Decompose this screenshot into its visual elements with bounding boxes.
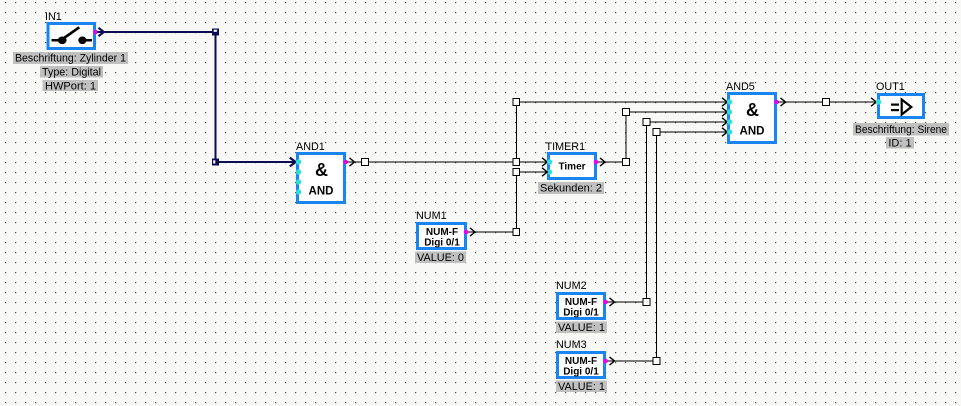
node corner at (646,122) [643,119,650,126]
svg-text:NUM3: NUM3 [556,339,587,351]
wire arrow into AND5 input 4 [722,128,727,136]
wire corner to AND1, horizontal [219,161,296,163]
svg-text:IN1: IN1 [45,11,62,23]
wire arrow into TIMER1 input 1 [542,158,547,166]
node waypoint at (826,102) [823,99,830,106]
IN1 output pin [93,30,98,35]
number block NUM1 [416,210,466,249]
node corner at (516,232) [513,229,520,236]
wire TIMER1 out arrow [600,158,605,166]
AND1 output pin [343,160,348,165]
node corner junction bottom [212,159,219,166]
NUM1 output pin [464,230,469,235]
node corner at (646,302) [643,299,650,306]
svg-text:&: & [315,160,328,180]
node corner at (656,361) [653,358,660,365]
svg-text:Digi 0/1: Digi 0/1 [563,367,599,378]
TIMER1 output pin [594,160,599,165]
AND1 input pins [296,159,301,194]
node corner at (516,172) [513,169,520,176]
label Beschriftung: Sirene [853,123,949,136]
wire arrow into AND5 input 1 [722,98,727,106]
wire AND5 to OUT1, horizontal [778,101,877,103]
wire NUM1 out arrow [470,228,475,236]
svg-text:HWPort: 1: HWPort: 1 [45,80,96,92]
svg-text:AND: AND [309,186,334,198]
wire riser x646 up to AND5 row [646,122,648,299]
wire NUM3 to riser, horizontal [608,360,657,362]
OUT1 input pin [876,99,881,104]
wire arrow into OUT1 input [871,98,876,106]
wire AND5 out arrow [781,98,786,106]
svg-text:ID: 1: ID: 1 [888,137,911,149]
timer block TIMER1 [546,141,596,179]
wire arrow into AND1 input 1 [290,158,296,167]
svg-text:Beschriftung: Sirene: Beschriftung: Sirene [855,124,947,136]
label HWPort: 1 [43,80,99,92]
svg-text:Digi 0/1: Digi 0/1 [563,308,599,319]
wire riser x516 up to AND5 row [515,102,517,159]
wire arrow into AND5 input 3 [722,118,727,126]
node corner junction top [212,29,219,36]
AND gate AND5 [726,81,776,143]
AND5 input pins [727,99,732,134]
node corner at (656,132) [653,129,660,136]
svg-text:AND: AND [740,126,765,138]
AND gate AND1 [296,141,345,203]
svg-text:TIMER1: TIMER1 [546,141,586,153]
wire to AND5 input 1, horizontal [520,101,728,103]
svg-text:Digi 0/1: Digi 0/1 [424,238,460,249]
svg-text:VALUE: 1: VALUE: 1 [558,381,605,393]
wire arrow into TIMER1 input 2 [542,168,547,176]
label ID: 1 [886,137,914,149]
svg-text:NUM1: NUM1 [416,210,447,222]
wire AND1 to TIMER1 in1, horizontal [347,161,548,163]
wire IN1 to corner, horizontal [97,31,214,33]
svg-text:Timer: Timer [558,162,585,173]
TIMER1 input pins [547,159,552,174]
svg-text:VALUE: 1: VALUE: 1 [558,322,605,334]
node waypoint at (365,162) [362,159,369,166]
input block IN1 [45,11,95,49]
svg-text:NUM-F: NUM-F [565,297,597,308]
AND5 output pin [774,100,779,105]
wire riser x516 up to TIMER1 in2 row [515,172,517,229]
wire NUM3 out arrow [610,357,615,365]
wire to TIMER1 input 2, horizontal [520,171,548,173]
wire AND1 out arrow [350,158,355,166]
svg-text:AND5: AND5 [726,81,755,93]
label VALUE: 1 (NUM2) [556,322,607,335]
wire TIMER1 to riser, horizontal [598,161,626,163]
NUM2 output pin [603,300,608,305]
node junction at (516,162) [513,159,520,166]
svg-text:NUM2: NUM2 [556,280,587,292]
wire NUM2 to riser, horizontal [608,301,647,303]
wire NUM2 out arrow [610,298,615,306]
label VALUE: 0 [415,252,466,265]
NUM3 output pin [603,359,608,364]
svg-text:Beschriftung: Zylinder 1: Beschriftung: Zylinder 1 [15,53,126,65]
svg-text:NUM-F: NUM-F [426,227,458,238]
svg-text:NUM-F: NUM-F [565,356,597,367]
svg-text:OUT1: OUT1 [876,81,905,93]
wire corner vertical [214,36,216,159]
label Type: Digital [40,66,103,79]
wire arrow into AND5 input 2 [722,108,727,116]
node corner at (626,162) [623,159,630,166]
wire to AND5 input 3, horizontal [650,121,728,123]
node corner at (516,102) [513,99,520,106]
node corner at (626,112) [623,109,630,116]
wire to AND5 input 4, horizontal [660,131,728,133]
svg-text:Sekunden: 2: Sekunden: 2 [540,183,602,195]
number block NUM3 [556,339,605,378]
number block NUM2 [556,280,605,319]
wire riser x626 up to AND5 row [625,112,627,159]
wire IN1 out arrow [99,28,104,36]
svg-text:AND1: AND1 [296,141,325,153]
label Beschriftung: Zylinder 1 [13,52,128,65]
svg-text:&: & [746,100,759,120]
wire to AND5 input 2, horizontal [629,111,727,113]
wire riser x656 up to AND5 row [656,132,658,358]
wire NUM1 to riser, horizontal [468,231,516,233]
svg-text:Type: Digital: Type: Digital [42,67,101,79]
output block OUT1 [876,81,924,118]
label VALUE: 1 (NUM3) [556,381,607,394]
label Sekunden: 2 [538,182,604,195]
svg-text:VALUE: 0: VALUE: 0 [417,252,464,264]
